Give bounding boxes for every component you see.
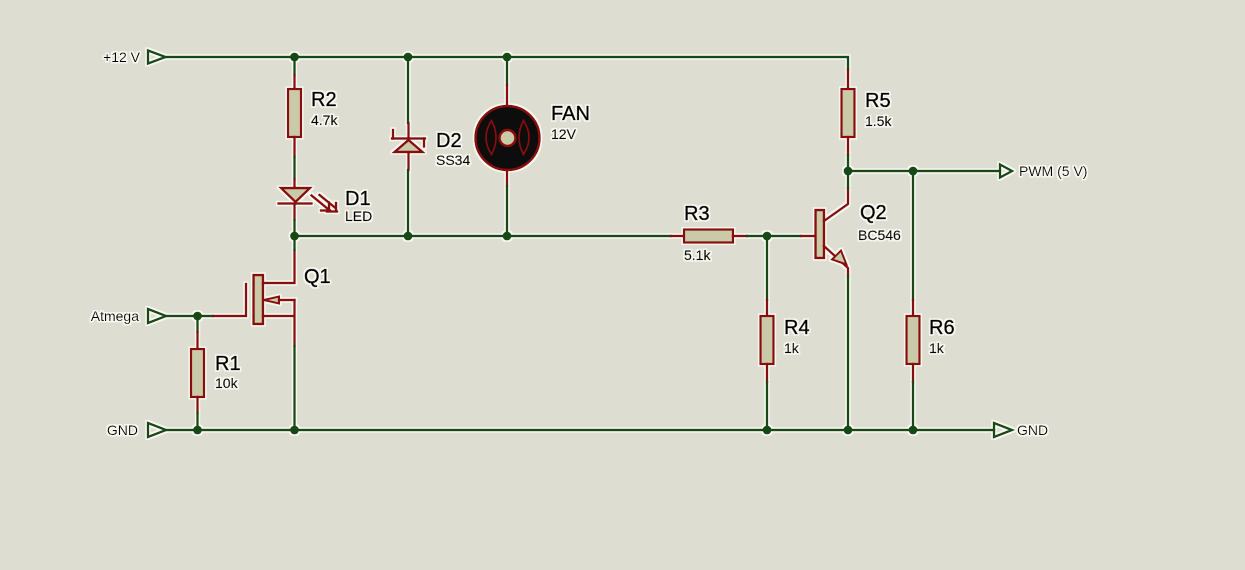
node junction PWM R6 [909, 167, 918, 176]
pin R4 bottom [766, 364, 768, 382]
svg-text:GND: GND [107, 422, 138, 438]
pin R5 top [847, 70, 849, 89]
node junction mid D2 [404, 232, 413, 241]
FAN blade left [486, 121, 496, 155]
Q1 body arrow [264, 297, 280, 304]
D1 LED arrow 1 [312, 196, 331, 211]
node junction top R2 [290, 53, 299, 62]
svg-text:R2: R2 [311, 89, 337, 111]
svg-text:1k: 1k [929, 340, 945, 356]
pin R6 top [912, 300, 914, 316]
wire R6 top [912, 171, 914, 300]
resistor R1 [191, 349, 204, 397]
Q1 body wire [279, 299, 295, 301]
svg-text:LED: LED [345, 208, 372, 224]
resistor R6 [907, 316, 920, 364]
wire ground rail [166, 429, 994, 431]
wire D2 top [407, 57, 409, 123]
pin Q1 gate [213, 284, 246, 316]
svg-text:Atmega: Atmega [91, 308, 139, 324]
wire FAN to mid rail [506, 186, 508, 236]
wire R1 top [196, 316, 198, 332]
wire R2 top [293, 57, 295, 75]
pin FAN bottom [506, 170, 508, 186]
pin R6 bottom [912, 364, 914, 382]
wire R4 bottom [766, 382, 768, 430]
wire R1 bottom [196, 413, 198, 430]
pin R4 top [766, 300, 768, 316]
Q2 emitter arrow [832, 251, 847, 265]
pin R1 top [196, 332, 198, 349]
node junction top FAN [503, 53, 512, 62]
svg-text:12V: 12V [551, 126, 577, 142]
terminal Atmega [148, 309, 166, 323]
wire Q1 drain up [293, 236, 295, 250]
svg-text:1.5k: 1.5k [865, 113, 892, 129]
wire Q2 collector up [847, 171, 849, 188]
resistor R2 [288, 89, 301, 137]
pin R5 bottom [847, 137, 849, 155]
Q2 collector [824, 188, 848, 221]
wire R5 bottom [847, 155, 849, 171]
node junction gnd Q2 [844, 426, 853, 435]
terminal PWM [1000, 165, 1012, 178]
svg-text:Q2: Q2 [860, 202, 887, 224]
Q1 source [263, 300, 295, 346]
pin R3 left [671, 235, 684, 237]
diode D2 schottky [392, 130, 425, 152]
pin R2 top [293, 75, 295, 89]
pin R3 right [733, 235, 747, 237]
wire Q2 emitter down [847, 276, 849, 430]
wire mid rail [295, 235, 672, 237]
wire PWM rail [848, 170, 1000, 172]
FAN blade right [519, 121, 529, 155]
node junction gnd Q1 [290, 426, 299, 435]
pin R2 bottom [293, 137, 295, 157]
svg-text:GND: GND [1017, 422, 1048, 438]
FAN hub [500, 130, 516, 146]
pin FAN top [506, 85, 508, 106]
svg-text:+12 V: +12 V [103, 49, 141, 65]
svg-text:1k: 1k [784, 340, 800, 356]
resistor R4 [761, 316, 774, 364]
svg-text:Q1: Q1 [304, 266, 331, 288]
svg-text:R5: R5 [865, 90, 891, 112]
Q1 drain [263, 250, 295, 283]
node junction gnd R6 [909, 426, 918, 435]
pin R1 bottom [196, 397, 198, 413]
terminal GND left [148, 423, 166, 437]
node junction top D2 [404, 53, 413, 62]
pin D1 bottom [293, 204, 295, 220]
wire FAN top [506, 57, 508, 85]
svg-text:R4: R4 [784, 317, 810, 339]
svg-text:D2: D2 [436, 130, 462, 152]
wire +12V top rail [165, 57, 848, 70]
transistor Q2 base bar [816, 210, 825, 258]
svg-text:D1: D1 [345, 188, 371, 210]
wire D1 to mid rail [293, 220, 295, 236]
svg-text:R3: R3 [684, 203, 710, 225]
D1 LED arrow 2 [320, 195, 338, 212]
pin D2 top [407, 123, 409, 138]
svg-text:4.7k: 4.7k [311, 112, 338, 128]
wire D2 to mid rail [407, 170, 409, 236]
node junction mid D1 [290, 232, 299, 241]
svg-text:10k: 10k [215, 375, 239, 391]
svg-text:BC546: BC546 [858, 227, 901, 243]
wire R3 to Q2 base [747, 235, 801, 237]
svg-text:FAN: FAN [551, 103, 590, 125]
pin Q2 base [801, 235, 815, 237]
pin D2 bottom [407, 153, 409, 171]
wire Atmega to gate [166, 315, 213, 317]
node junction mid FAN [503, 232, 512, 241]
svg-text:5.1k: 5.1k [684, 247, 711, 263]
node junction PWM Q2 [844, 167, 853, 176]
diode D1 LED [279, 188, 312, 204]
wire R6 bottom [912, 382, 914, 430]
terminal +12V [148, 51, 166, 64]
svg-text:R6: R6 [929, 317, 955, 339]
node junction gnd R1 [193, 426, 202, 435]
Q2 emitter [824, 246, 848, 276]
resistor R5 [842, 89, 855, 137]
node junction R4 top [763, 232, 772, 241]
motor FAN body [476, 106, 540, 170]
wire R2 to D1 [293, 157, 295, 179]
transistor Q1 channel [254, 275, 264, 324]
resistor R3 [684, 230, 733, 243]
svg-text:PWM (5 V): PWM (5 V) [1019, 163, 1087, 179]
wire Q1 source down [293, 346, 295, 430]
terminal GND right [994, 423, 1012, 437]
node junction Atmega R1 [193, 312, 202, 321]
wire R4 top [766, 236, 768, 300]
node junction gnd R4 [763, 426, 772, 435]
pin D1 top [293, 179, 295, 187]
svg-text:SS34: SS34 [436, 152, 470, 168]
svg-text:R1: R1 [215, 353, 241, 375]
